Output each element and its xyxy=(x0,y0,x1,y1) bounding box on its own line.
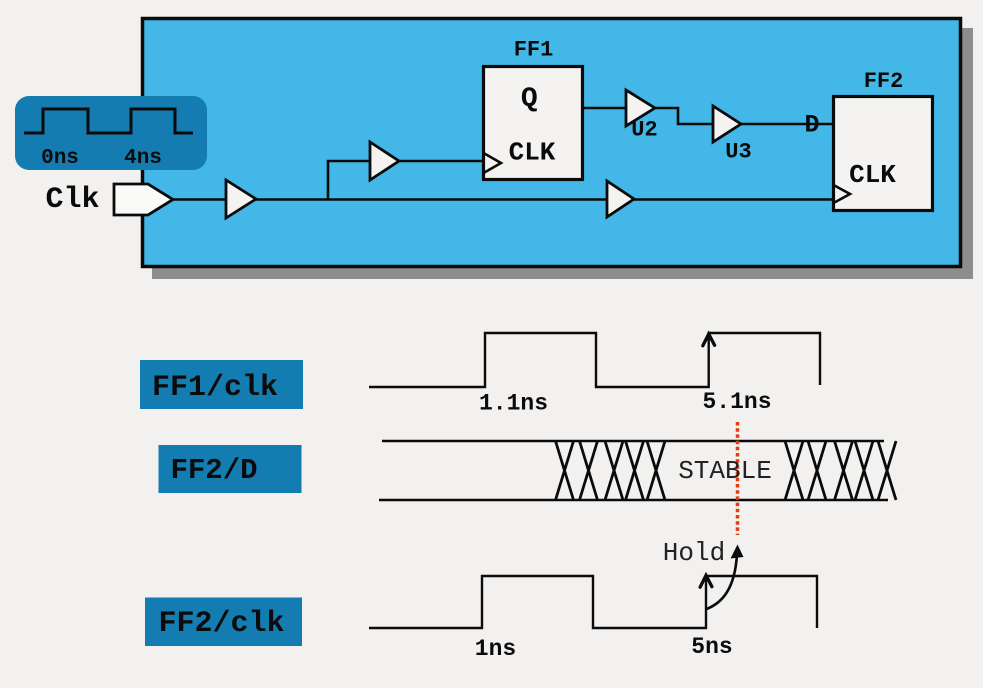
svg-text:1.1ns: 1.1ns xyxy=(479,391,548,417)
FF2/D hatch region 1 xyxy=(556,441,666,500)
svg-text:FF1/clk: FF1/clk xyxy=(152,371,278,405)
red dotted hold line xyxy=(736,422,740,535)
svg-text:U3: U3 xyxy=(725,140,751,165)
arrowhead on 5ns edge xyxy=(700,575,712,587)
FF2/D top rail xyxy=(382,440,884,442)
FF2/D hatch region 2 xyxy=(785,441,896,500)
label box FF1/clk xyxy=(140,360,303,409)
svg-text:Clk: Clk xyxy=(45,183,99,217)
label box FF2/D xyxy=(159,445,302,493)
svg-text:D: D xyxy=(804,111,819,140)
svg-text:5ns: 5ns xyxy=(691,634,732,660)
buffer (clk input) xyxy=(226,180,256,218)
svg-text:FF2/D: FF2/D xyxy=(171,454,258,487)
svg-text:CLK: CLK xyxy=(509,138,556,168)
wire: Q output to U2 xyxy=(584,107,626,110)
buffer (FF1 clk path) xyxy=(370,142,399,180)
svg-text:Hold: Hold xyxy=(663,538,725,568)
buffer U3 xyxy=(713,106,741,142)
input pin Clk xyxy=(114,184,173,215)
hold curved arrow xyxy=(707,554,738,609)
flip-flop FF2 xyxy=(834,97,933,211)
svg-text:0ns: 0ns xyxy=(41,147,79,170)
svg-text:U2: U2 xyxy=(631,118,657,143)
FF2 clk wedge xyxy=(834,185,851,203)
wire: branch to FF1 clk buffer xyxy=(328,161,483,200)
tooltip clock waveform xyxy=(24,109,193,133)
main blue block xyxy=(143,19,961,267)
svg-text:Q: Q xyxy=(521,84,538,115)
wire: clk main line xyxy=(173,198,832,201)
svg-text:STABLE: STABLE xyxy=(678,456,772,486)
label box FF2/clk xyxy=(145,598,302,647)
svg-text:FF1: FF1 xyxy=(514,38,554,63)
wire: U3 to FF2 D xyxy=(741,123,832,126)
clock tooltip bubble xyxy=(15,96,207,170)
svg-text:5.1ns: 5.1ns xyxy=(702,389,771,415)
svg-text:4ns: 4ns xyxy=(124,147,162,170)
waveform FF1/clk xyxy=(369,333,820,387)
arrowhead on 5.1ns edge xyxy=(703,334,715,346)
svg-text:FF2/clk: FF2/clk xyxy=(159,607,285,641)
svg-text:FF2: FF2 xyxy=(864,69,904,94)
shadow of main block xyxy=(152,28,973,279)
svg-text:CLK: CLK xyxy=(849,160,896,190)
FF2/D bottom rail xyxy=(379,499,888,501)
buffer (FF2 clk path) xyxy=(607,181,634,217)
FF1 clk wedge xyxy=(484,153,502,173)
svg-text:1ns: 1ns xyxy=(475,636,516,662)
wire: U2 to U3 xyxy=(655,108,713,124)
flip-flop FF1 xyxy=(484,67,583,180)
waveform FF2/clk xyxy=(369,576,817,628)
buffer U2 xyxy=(626,90,655,126)
